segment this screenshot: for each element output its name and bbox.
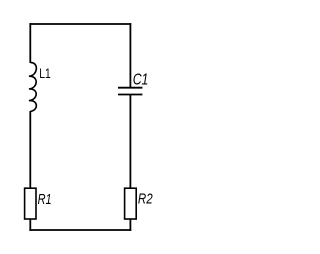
wire: right rail upper (top corner to C1) bbox=[129, 23, 131, 88]
svg-text:L1: L1 bbox=[39, 66, 50, 81]
svg-text:R1: R1 bbox=[38, 192, 52, 208]
svg-text:R2: R2 bbox=[138, 191, 153, 207]
inductor L1 bbox=[29, 63, 36, 112]
wire: R1 bottom stub bbox=[29, 219, 31, 231]
svg-text:C1: C1 bbox=[133, 71, 149, 88]
resistor R1 bbox=[25, 188, 36, 219]
capacitor C1 plate top bbox=[118, 87, 142, 89]
wire: left rail upper (top corner to L1) bbox=[29, 23, 31, 63]
wire: bottom horizontal bbox=[29, 229, 131, 231]
wire: bottom to R2 stub bbox=[129, 219, 131, 231]
wire: left rail lower (L1 to R1) bbox=[29, 111, 31, 189]
resistor R2 bbox=[125, 188, 137, 219]
wire: top horizontal bbox=[29, 23, 131, 25]
wire: right rail lower (C1 to R2) bbox=[129, 95, 131, 189]
capacitor C1 plate bottom bbox=[118, 94, 142, 96]
